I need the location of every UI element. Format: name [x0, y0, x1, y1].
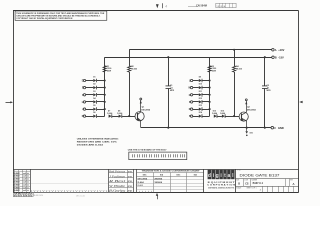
- wire diode D6 to bus: [97, 116, 105, 118]
- junction bus row 3: [209, 94, 211, 96]
- svg-text:#8421: #8421: [15, 175, 20, 178]
- svg-text:#8421: #8421: [15, 183, 20, 186]
- svg-text:2N2894: 2N2894: [154, 177, 162, 180]
- svg-text:68,000: 68,000: [131, 69, 137, 71]
- wire diode D5 to bus: [97, 109, 105, 111]
- svg-text:1/2W: 1/2W: [212, 71, 217, 73]
- svg-text:+10V: +10V: [278, 48, 284, 52]
- svg-text:D2: D2: [93, 84, 95, 86]
- svg-text:CODE: CODE: [244, 180, 248, 182]
- svg-text:d: d: [208, 173, 211, 179]
- svg-text:-15V: -15V: [278, 55, 284, 59]
- junction bus row 5: [104, 108, 106, 110]
- svg-text:DIODE GATE B137: DIODE GATE B137: [240, 174, 280, 178]
- svg-text:D-664: D-664: [107, 112, 112, 115]
- resistor R1 7,500 1/2W: [103, 66, 106, 72]
- resistor R4 68,000: [233, 66, 236, 72]
- wire row M to diode D10: [193, 87, 199, 89]
- svg-text:xz4: xz4: [23, 189, 26, 192]
- svg-text:DEC2894: DEC2894: [247, 109, 257, 112]
- svg-text:D3: D3: [93, 91, 95, 93]
- junction bus row 1: [209, 79, 211, 81]
- svg-text:D10: D10: [199, 84, 202, 86]
- wire row H to diode D4: [86, 101, 94, 103]
- junction R4 base node: [233, 115, 235, 117]
- wire row E to diode D2: [86, 87, 94, 89]
- svg-text:DEC2894: DEC2894: [141, 109, 151, 112]
- junction bus row 5: [209, 108, 211, 110]
- svg-text:D6: D6: [93, 112, 95, 114]
- svg-text:D5: D5: [93, 105, 95, 107]
- svg-text:COPYRIGHT 1961 BY DIGITAL EQUI: COPYRIGHT 1961 BY DIGITAL EQUIPMENT CORP…: [16, 17, 72, 20]
- svg-text:D4: D4: [93, 97, 95, 100]
- svg-text:D13: D13: [199, 105, 202, 107]
- wire row N to diode D11: [193, 94, 199, 96]
- junction C1 bottom: [167, 127, 169, 129]
- svg-text:#8421: #8421: [15, 178, 20, 181]
- diode D6: [93, 115, 96, 118]
- wire D8 to Q1 base: [122, 116, 135, 118]
- svg-text:xz4: xz4: [23, 178, 26, 181]
- wire row L to diode D9: [193, 80, 199, 82]
- svg-text:vb: vb: [27, 182, 29, 184]
- diode D11: [199, 93, 202, 96]
- svg-text:2: 2: [260, 190, 261, 192]
- wire R2 column: [129, 50, 131, 66]
- wire right gate diode bus: [209, 57, 211, 116]
- note disclaimer box: [15, 11, 107, 20]
- node B terminal -15V: [272, 56, 275, 59]
- transistor Q2 DEC2894: [239, 112, 248, 121]
- svg-text:4/7/61: 4/7/61: [128, 175, 133, 178]
- junction R4 rail: [233, 49, 235, 51]
- fold mark top arrow: [156, 4, 159, 8]
- junction C2 bottom: [264, 127, 266, 129]
- svg-text:4: 4: [165, 4, 167, 8]
- revision table: [30, 169, 32, 192]
- capacitor C1 .01 MFD: [166, 85, 172, 87]
- svg-text:D-662: D-662: [138, 185, 143, 187]
- wire diode D1 to bus: [97, 80, 105, 82]
- node Q2 output: [245, 99, 247, 101]
- svg-text:#8421: #8421: [15, 186, 20, 189]
- svg-text:4/7/61: 4/7/61: [128, 170, 133, 173]
- svg-text:CN 584M: CN 584M: [196, 3, 207, 7]
- node Q1 output: [140, 98, 142, 100]
- wire diode D3 to bus: [97, 94, 105, 96]
- junction R2 base node: [128, 115, 130, 117]
- junction bus row 2: [104, 87, 106, 89]
- node A terminal +10V: [272, 49, 275, 52]
- svg-text:g: g: [216, 173, 219, 179]
- svg-text:MFD: MFD: [170, 90, 175, 92]
- diode D12: [199, 100, 202, 103]
- diode D14: [199, 115, 202, 118]
- svg-text:B: B: [238, 182, 240, 185]
- resistor R3 7,500 1/2W: [208, 66, 211, 72]
- svg-text:R Best: R Best: [107, 179, 125, 183]
- diode D3: [93, 93, 96, 96]
- wire C1 column: [168, 57, 170, 86]
- svg-text:CS: CS: [245, 182, 249, 185]
- svg-text:xz4: xz4: [23, 183, 26, 186]
- wire row P to diode D12: [193, 101, 199, 103]
- diode D9: [199, 79, 202, 82]
- svg-text:D14: D14: [199, 111, 202, 114]
- wire diode D2 to bus: [97, 87, 105, 89]
- svg-text:D12: D12: [199, 98, 202, 100]
- junction bus row 4: [209, 101, 211, 103]
- svg-text:DEC2894: DEC2894: [138, 177, 148, 180]
- svg-text:DEC 10-61: DEC 10-61: [76, 195, 85, 197]
- svg-text:B: B: [275, 56, 277, 59]
- svg-text:1/2W: 1/2W: [107, 71, 112, 73]
- wire row D to diode D1: [86, 80, 94, 82]
- wire row S to diode D14: [193, 116, 199, 118]
- diode D7 D-664: [109, 115, 112, 118]
- junction C2 top: [264, 56, 266, 58]
- junction bus row 1: [104, 79, 106, 81]
- diode D15 D-664: [214, 115, 217, 118]
- svg-text:D11: D11: [199, 91, 202, 93]
- wire diode D14 to bus: [202, 116, 209, 118]
- svg-text:4/7/61: 4/7/61: [128, 180, 133, 183]
- svg-text:Rmk Peterson: Rmk Peterson: [108, 169, 125, 173]
- svg-text:A: A: [293, 182, 295, 186]
- top stamp strip: [188, 6, 198, 8]
- svg-text:68,000: 68,000: [236, 69, 242, 71]
- wire diode D9 to bus: [202, 80, 209, 82]
- diode D1: [93, 79, 96, 82]
- svg-text:1N3606: 1N3606: [154, 182, 162, 184]
- diode D10: [199, 86, 202, 89]
- junction bus row 2: [209, 87, 211, 89]
- diode D8 D-664: [119, 115, 122, 118]
- fold mark left arrow: [6, 102, 11, 104]
- wire row F to diode D3: [86, 94, 94, 96]
- svg-text:vb: vb: [27, 190, 29, 192]
- wire R4 column: [234, 50, 236, 66]
- signature table: [108, 169, 110, 192]
- svg-text:UNLESS OTHERWISE INDICATED:: UNLESS OTHERWISE INDICATED:: [77, 138, 119, 141]
- svg-text:USE THE 1774 BOARD OF THE B137: USE THE 1774 BOARD OF THE B137: [128, 149, 167, 152]
- svg-text:DIODES ARE D-664: DIODES ARE D-664: [77, 144, 104, 147]
- junction bus row 3: [104, 94, 106, 96]
- svg-text:D-664: D-664: [220, 112, 225, 115]
- svg-text:D1: D1: [93, 77, 95, 79]
- svg-text:Q2: Q2: [247, 106, 250, 108]
- fold mark right arrow: [299, 101, 302, 103]
- wire D15 to D16: [217, 116, 222, 118]
- diode D13: [199, 108, 202, 111]
- wire left gate diode bus: [104, 57, 106, 116]
- wire row K to diode D6: [86, 116, 94, 118]
- svg-text:MFD: MFD: [267, 90, 272, 92]
- connector board outline: [129, 152, 187, 160]
- junction bus row 4: [104, 101, 106, 103]
- wire -15V rail: [105, 57, 272, 59]
- svg-text:D-664: D-664: [212, 112, 217, 115]
- wire row R to diode D13: [193, 109, 199, 111]
- svg-text:B Gurley: B Gurley: [109, 189, 126, 193]
- transistor & diode conversion chart: [136, 169, 138, 192]
- wire diode D13 to bus: [202, 109, 209, 111]
- svg-text:A: A: [275, 49, 277, 52]
- svg-text:C O R P O R A T I O N: C O R P O R A T I O N: [207, 184, 236, 187]
- svg-text:B137-0-1: B137-0-1: [253, 182, 264, 185]
- bottom comb scale: [31, 191, 33, 192]
- svg-text:SHEET 1 OF 1: SHEET 1 OF 1: [247, 188, 257, 190]
- junction Q2 emitter ground: [246, 127, 248, 129]
- svg-text:#8421: #8421: [15, 189, 20, 192]
- wire ground rail: [141, 127, 271, 129]
- svg-text:D-664: D-664: [138, 181, 145, 184]
- fold mark bottom arrow: [156, 193, 158, 196]
- capacitor C2 .01 MFD: [262, 85, 268, 87]
- svg-text:#8421: #8421: [15, 181, 20, 184]
- DEC logo: [203, 169, 205, 192]
- node C terminal GND: [271, 126, 274, 129]
- resistor R2 68,000: [128, 66, 131, 72]
- svg-text:4 2 6 1 5 8 3 2: 4 2 6 1 5 8 3 2: [13, 195, 32, 198]
- wire +10V rail: [129, 49, 271, 51]
- svg-text:D9: D9: [199, 77, 201, 79]
- wire D7 to D8: [112, 116, 119, 118]
- svg-text:SIZE: SIZE: [236, 180, 239, 182]
- wire diode D10 to bus: [202, 87, 209, 89]
- wire D16 to Q2 base: [225, 116, 239, 118]
- diode D4: [93, 100, 96, 103]
- wire diode D11 to bus: [202, 94, 209, 96]
- diode D5: [93, 108, 96, 111]
- svg-text:4/7/61: 4/7/61: [128, 190, 133, 193]
- wire Q1 emitter to ground rail: [140, 121, 142, 128]
- svg-text:1 2 1 3 1 4: 1 2 1 3 1 4: [217, 5, 226, 8]
- zone tick top: [162, 3, 164, 8]
- svg-text:vb: vb: [27, 184, 29, 186]
- svg-text:xz4: xz4: [23, 181, 26, 184]
- svg-text:xz4: xz4: [23, 186, 26, 189]
- svg-text:C: C: [274, 127, 276, 130]
- diode D2: [93, 86, 96, 89]
- wire row J to diode D5: [86, 109, 94, 111]
- wire Q2 collector lead: [246, 100, 248, 112]
- junction C1 top: [167, 56, 169, 58]
- diode D16 D-664: [222, 115, 225, 118]
- svg-text:xz4: xz4: [23, 175, 26, 178]
- wire Q2 emitter to ground rail: [246, 121, 248, 128]
- svg-text:B-MB 1024: B-MB 1024: [34, 195, 43, 197]
- wire diode D12 to bus: [202, 101, 209, 103]
- svg-text:E Q U I P M E N T: E Q U I P M E N T: [208, 182, 236, 184]
- ground symbol below Q2: [246, 128, 248, 132]
- svg-text:Q1: Q1: [142, 106, 145, 108]
- svg-text:D-664: D-664: [117, 112, 122, 115]
- svg-text:J Fadiman: J Fadiman: [109, 174, 126, 178]
- svg-text:GND: GND: [278, 126, 284, 130]
- svg-text:a: a: [228, 173, 231, 179]
- wire C2 column: [264, 57, 266, 86]
- svg-text:RESISTORS ARE 1/4W; 10%: RESISTORS ARE 1/4W; 10%: [77, 141, 117, 144]
- wire diode D4 to bus: [97, 101, 105, 103]
- svg-text:TITLE: TITLE: [237, 170, 241, 172]
- wire Q1 collector lead: [140, 100, 142, 112]
- svg-text:4/7/61: 4/7/61: [128, 185, 133, 188]
- svg-text:TRANSISTOR & DIODE CONVERSION: TRANSISTOR & DIODE CONVERSION CHART: [142, 169, 201, 172]
- transistor Q1 DEC2894: [135, 112, 144, 121]
- svg-text:W Hindle: W Hindle: [109, 184, 126, 188]
